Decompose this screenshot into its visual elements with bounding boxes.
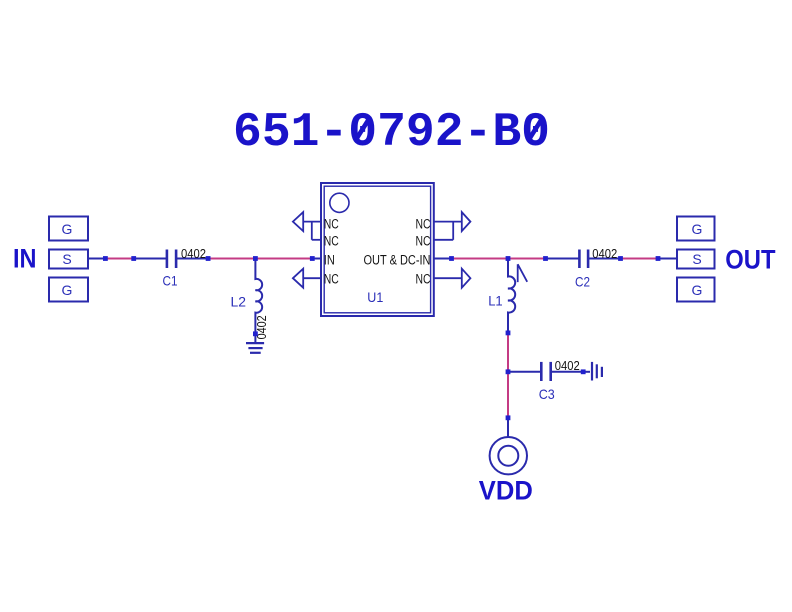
svg-text:G: G xyxy=(62,282,73,298)
svg-text:OUT: OUT xyxy=(725,245,776,275)
svg-text:OUT & DC-IN: OUT & DC-IN xyxy=(364,253,431,268)
svg-text:C3: C3 xyxy=(539,386,555,402)
svg-text:G: G xyxy=(692,282,703,298)
svg-text:NC: NC xyxy=(416,233,431,248)
svg-text:S: S xyxy=(692,251,701,267)
svg-text:G: G xyxy=(62,221,73,237)
svg-text:0402: 0402 xyxy=(555,358,580,373)
svg-text:S: S xyxy=(62,251,71,267)
svg-text:C2: C2 xyxy=(575,274,590,290)
svg-text:NC: NC xyxy=(416,217,431,232)
svg-text:NC: NC xyxy=(324,217,339,232)
svg-text:NC: NC xyxy=(416,271,431,286)
svg-text:L1: L1 xyxy=(488,293,503,309)
svg-text:NC: NC xyxy=(324,271,339,286)
svg-text:IN: IN xyxy=(324,253,335,268)
svg-text:0402: 0402 xyxy=(592,246,617,261)
svg-text:G: G xyxy=(692,221,703,237)
svg-text:NC: NC xyxy=(324,233,339,248)
svg-text:C1: C1 xyxy=(163,272,178,288)
svg-text:651-0792-B0: 651-0792-B0 xyxy=(233,106,550,160)
svg-text:IN: IN xyxy=(13,244,37,274)
svg-text:0402: 0402 xyxy=(181,246,206,261)
svg-text:U1: U1 xyxy=(367,289,383,305)
svg-text:VDD: VDD xyxy=(479,476,533,506)
svg-text:L2: L2 xyxy=(231,293,247,309)
